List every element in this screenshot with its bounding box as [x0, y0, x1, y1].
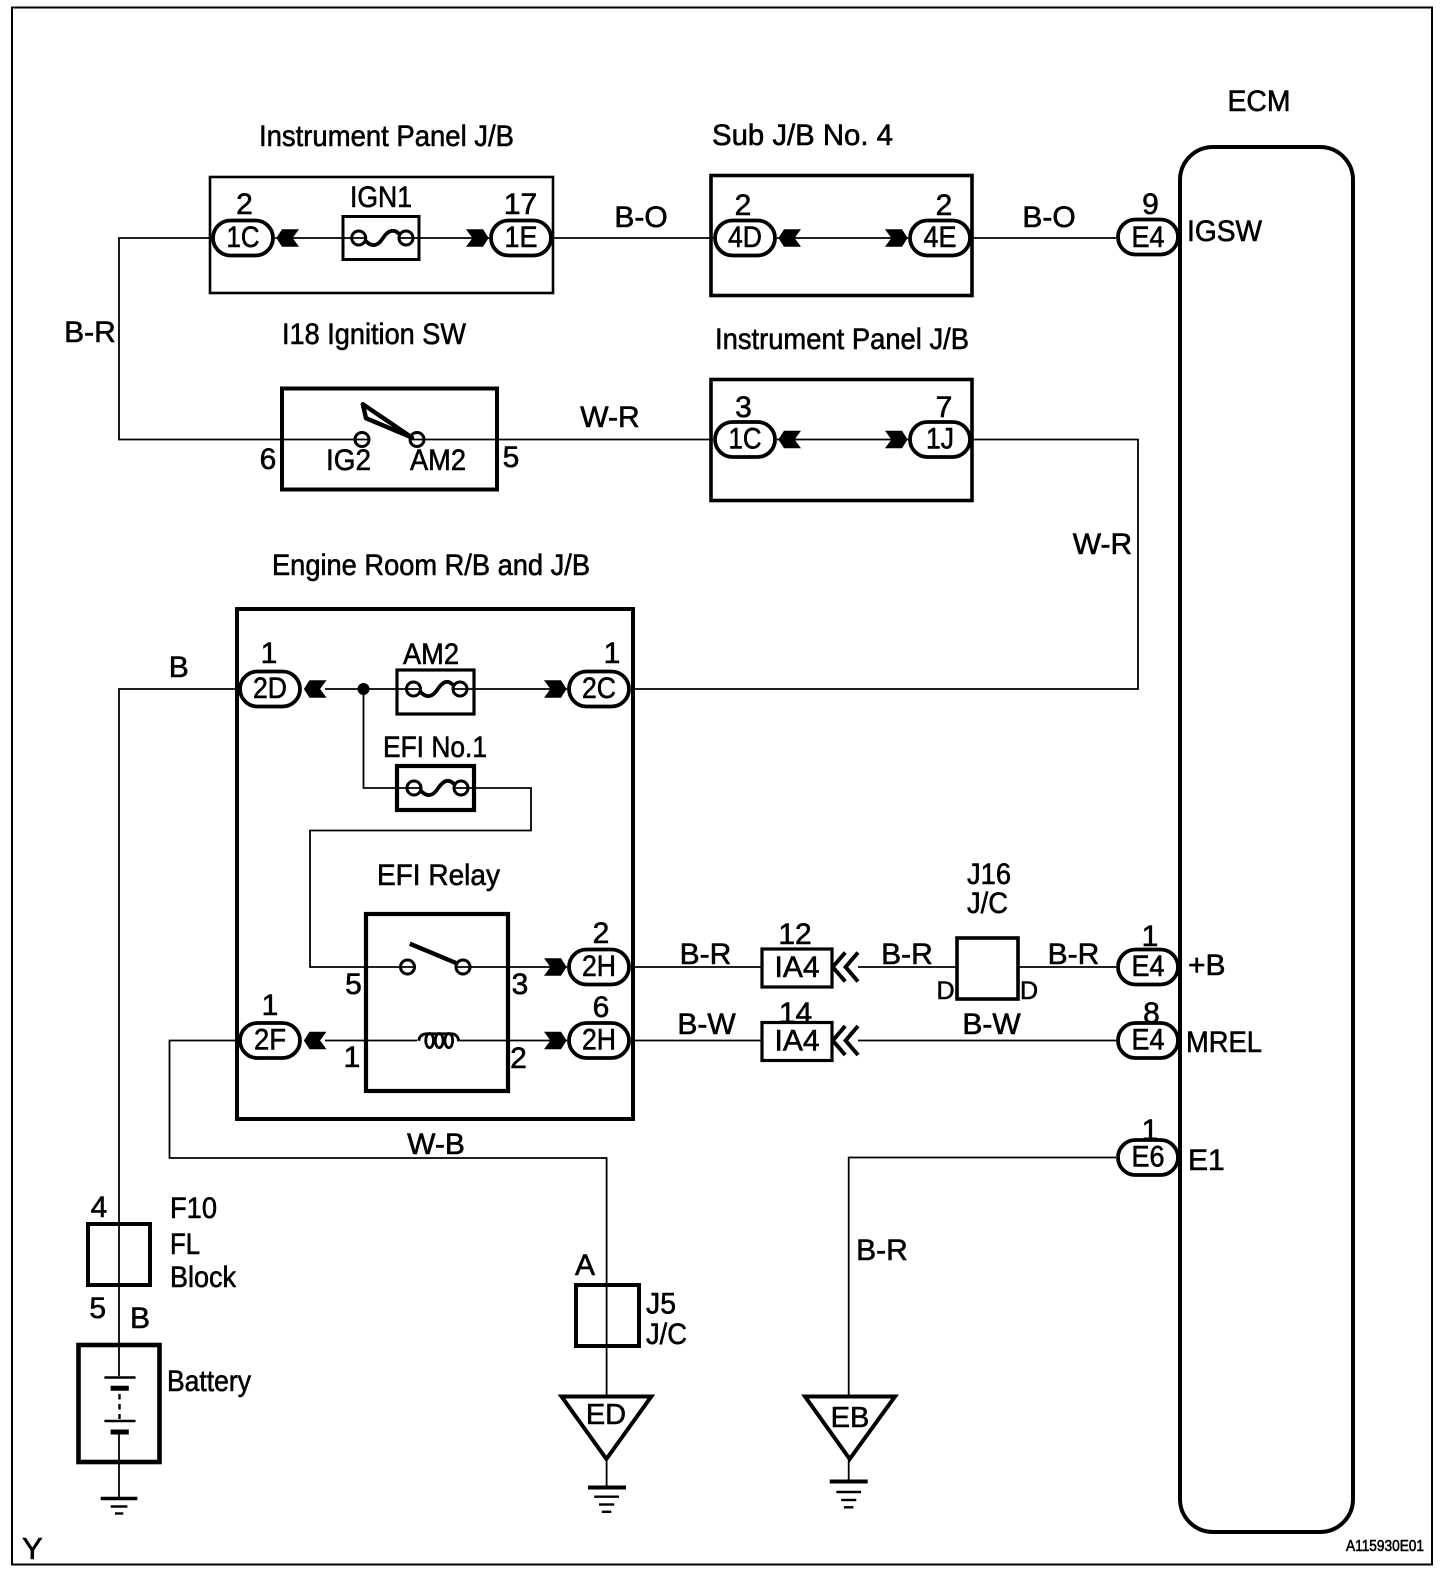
arrow at 4D [778, 229, 801, 246]
wire 2D to fuse AM2 [325, 688, 421, 690]
svg-text:EFI Relay: EFI Relay [377, 859, 500, 892]
svg-text:9: 9 [1142, 188, 1159, 221]
svg-text:Instrument Panel J/B: Instrument Panel J/B [259, 120, 514, 153]
fuse EFI No.1 [383, 731, 487, 810]
junction connector J16 J/C [936, 858, 1038, 1005]
svg-text:Block: Block [170, 1261, 237, 1294]
svg-text:2: 2 [236, 188, 253, 221]
wire B-R from 1C to ignition switch pin 6 [119, 238, 282, 440]
wire relay pin 5 to contact [366, 966, 415, 968]
svg-text:AM2: AM2 [403, 638, 459, 671]
svg-text:IGN1: IGN1 [350, 181, 412, 214]
box Sub J/B No. 4 [711, 119, 972, 296]
box Instrument Panel J/B [210, 120, 553, 293]
svg-text:1J: 1J [926, 423, 954, 456]
svg-text:8: 8 [1143, 997, 1160, 1030]
connector 2F pin 1 [240, 989, 300, 1058]
svg-text:B-W: B-W [962, 1008, 1021, 1041]
WIRES-MIDDLE [119, 689, 1116, 1397]
svg-text:F10: F10 [170, 1192, 217, 1225]
ground point ED [562, 1397, 652, 1460]
svg-text:IG2: IG2 [326, 444, 371, 477]
connector 2C pin 1 [569, 637, 629, 707]
svg-text:17: 17 [504, 188, 537, 221]
svg-text:B-O: B-O [614, 201, 667, 234]
svg-text:W-B: W-B [407, 1128, 465, 1161]
junction node [358, 683, 370, 695]
battery BAT1 [79, 1345, 252, 1462]
wire AM2 contact to switch box right [410, 439, 497, 441]
arrow at 2D [304, 680, 327, 697]
connector 4D pin 2 [715, 189, 775, 256]
connector 2H pin 2 [569, 917, 629, 985]
svg-text:1: 1 [604, 637, 621, 670]
svg-text:A115930E01: A115930E01 [1346, 1538, 1424, 1555]
wire B-W 2H to IA4 pin 14 [631, 1040, 762, 1042]
svg-text:EFI No.1: EFI No.1 [383, 731, 487, 764]
wire fuse IGN1 to 1E [399, 237, 489, 239]
svg-text:E4: E4 [1132, 221, 1165, 254]
svg-text:1C: 1C [729, 423, 762, 456]
arrow at 2F [304, 1032, 327, 1049]
svg-text:14: 14 [779, 997, 812, 1030]
wire 2F arrow to relay pin 1 [325, 1040, 366, 1042]
svg-text:2F: 2F [254, 1024, 286, 1057]
svg-text:6: 6 [260, 443, 277, 476]
svg-text:2: 2 [735, 189, 752, 222]
wire B-R E6 to EB ground [849, 1158, 1116, 1397]
svg-text:5: 5 [89, 1292, 106, 1325]
wire coil to relay pin 2 [457, 1040, 508, 1042]
connector E4 pin 1 +B [1118, 920, 1226, 985]
svg-text:E4: E4 [1132, 950, 1165, 983]
svg-text:6: 6 [593, 991, 610, 1024]
svg-text:IGSW: IGSW [1187, 215, 1263, 248]
connector 1C pin 2 [213, 188, 273, 256]
wire fuse EFI No.1 to relay pin 5 [310, 788, 531, 967]
svg-text:5: 5 [345, 968, 362, 1001]
svg-text:2H: 2H [582, 950, 616, 983]
box I18 Ignition SW [282, 318, 497, 490]
svg-text:1: 1 [262, 989, 279, 1022]
connector E6 pin 1 E1 [1118, 1114, 1225, 1177]
wire J5 to ED ground [606, 1346, 608, 1397]
svg-text:A: A [575, 1249, 595, 1282]
wire W-R 1J down to 2C [633, 440, 1138, 690]
svg-text:1: 1 [261, 637, 278, 670]
svg-text:B-R: B-R [856, 1234, 908, 1267]
arrow at 2C [544, 680, 567, 697]
svg-text:E1: E1 [1188, 1144, 1225, 1177]
ground point EB [805, 1397, 895, 1460]
connector E4 pin 9 IGSW [1118, 188, 1263, 255]
ECM U1 [1180, 85, 1353, 1532]
connector 1C pin 3 [715, 391, 775, 457]
svg-text:MREL: MREL [1186, 1026, 1262, 1059]
svg-text:FL: FL [170, 1228, 200, 1261]
relay coil L1 [419, 1034, 459, 1048]
arrow at 1J [885, 431, 908, 448]
chevrons IA4 14 [833, 1026, 858, 1055]
svg-text:2D: 2D [253, 672, 287, 705]
wire fuse AM2 to 2C [453, 688, 567, 690]
wire relay contact to pin 3 [456, 966, 508, 968]
svg-text:EB: EB [831, 1402, 870, 1434]
fuse AM2 [397, 638, 474, 714]
svg-text:W-R: W-R [1073, 528, 1132, 561]
arrow at 2H pin6 [544, 1032, 567, 1049]
svg-text:2: 2 [510, 1042, 527, 1075]
svg-text:4E: 4E [924, 221, 957, 254]
switch contact IG2 [355, 433, 369, 447]
wire B-R IA4 to J16 [858, 966, 957, 968]
fusible link F10 FL Block [88, 1191, 237, 1325]
connector IA4 pin 14 [762, 997, 832, 1061]
arrow at 1E [466, 229, 489, 246]
svg-text:Y: Y [22, 1531, 43, 1566]
relay switch contact left [401, 960, 415, 974]
svg-text:12: 12 [778, 918, 811, 951]
box Instrument Panel J/B 2 [711, 323, 972, 501]
ground at ED [588, 1459, 626, 1512]
fuse IGN1 [343, 181, 419, 260]
svg-text:J/C: J/C [646, 1318, 687, 1351]
wire switch box to IG2 contact [282, 439, 369, 441]
wire W-R switch pin 5 to 1C [497, 439, 713, 441]
svg-text:AM2: AM2 [410, 444, 466, 477]
ground at EB [830, 1459, 868, 1507]
wire node A1 to fuse EFI No.1 [364, 689, 422, 788]
wire relay pin 1 to coil [366, 1040, 417, 1042]
svg-text:B-R: B-R [1048, 938, 1100, 971]
wire W-B 2F down [170, 1041, 607, 1286]
wire B battery feed vertical [119, 689, 238, 1345]
wire 4D to 4E [777, 237, 908, 239]
relay switch lever [410, 944, 456, 963]
wire B-R 2H to IA4 pin 12 [631, 966, 762, 968]
wire B-O 4E to ECM E4 pin 9 [972, 237, 1116, 239]
wire B-W IA4 to ECM E4 pin 8 [858, 1040, 1116, 1042]
svg-text:J5: J5 [646, 1288, 676, 1321]
svg-text:Engine Room R/B and J/B: Engine Room R/B and J/B [272, 549, 590, 582]
svg-text:B-W: B-W [677, 1008, 736, 1041]
switch contact AM2 [410, 433, 424, 447]
svg-text:B: B [130, 1302, 150, 1335]
svg-text:5: 5 [503, 441, 520, 474]
svg-text:IA4: IA4 [774, 951, 819, 984]
connector 4E pin 2 [910, 189, 970, 256]
arrow at 2H pin2 [544, 958, 567, 975]
svg-text:ED: ED [586, 1399, 626, 1431]
connector 1E pin 17 [491, 188, 551, 256]
junction connector J5 J/C [576, 1285, 687, 1351]
svg-text:J/C: J/C [967, 887, 1008, 920]
svg-text:3: 3 [512, 968, 529, 1001]
svg-text:B-O: B-O [1022, 201, 1075, 234]
wire B-R J16 to ECM E4 pin 1 [1018, 966, 1116, 968]
svg-text:1C: 1C [227, 221, 260, 254]
connector 2H pin 6 [569, 991, 629, 1058]
svg-text:B-R: B-R [881, 938, 933, 971]
wire relay pin 2 to 2H [508, 1040, 567, 1042]
svg-text:4D: 4D [728, 221, 762, 254]
svg-text:B: B [169, 651, 189, 684]
connector 2D pin 1 [240, 637, 300, 707]
ground at battery [101, 1462, 138, 1514]
wire relay pin 3 to 2H [508, 966, 567, 968]
svg-text:1: 1 [1142, 920, 1159, 953]
wire B-O 1E to 4D [553, 237, 713, 239]
svg-text:4: 4 [91, 1191, 108, 1224]
svg-text:+B: +B [1188, 949, 1226, 982]
connector 1J pin 7 [910, 391, 970, 457]
svg-text:2: 2 [593, 917, 610, 950]
wire 1C to fuse IGN1 [275, 237, 366, 239]
svg-text:2: 2 [936, 189, 953, 222]
svg-text:D: D [936, 977, 954, 1005]
relay switch contact right [456, 960, 470, 974]
relay EFI Relay [366, 859, 508, 1091]
arrow at 1C [276, 229, 299, 246]
wire 1C to 1J [777, 439, 908, 441]
svg-text:7: 7 [936, 391, 953, 424]
svg-text:W-R: W-R [580, 401, 639, 434]
svg-text:Sub J/B No. 4: Sub J/B No. 4 [712, 119, 893, 152]
svg-text:2C: 2C [582, 672, 616, 705]
connector E4 pin 8 MREL [1118, 997, 1262, 1059]
svg-text:1E: 1E [505, 221, 538, 254]
svg-text:B-R: B-R [64, 316, 116, 349]
box Engine Room R/B and J/B [237, 549, 633, 1119]
connector IA4 pin 12 [762, 918, 832, 987]
svg-text:B-R: B-R [680, 938, 732, 971]
svg-text:1: 1 [1142, 1114, 1159, 1147]
svg-text:Instrument Panel J/B: Instrument Panel J/B [715, 323, 969, 356]
svg-text:D: D [1020, 977, 1038, 1005]
arrow at 4E [885, 229, 908, 246]
arrow at 1C 3 [778, 431, 801, 448]
WIRES-TOPLEFT [119, 238, 1138, 689]
chevrons IA4 12 [833, 953, 858, 982]
svg-text:2H: 2H [582, 1024, 616, 1057]
svg-text:Battery: Battery [167, 1365, 251, 1398]
svg-text:I18 Ignition SW: I18 Ignition SW [282, 318, 467, 351]
svg-text:1: 1 [344, 1041, 361, 1074]
svg-text:ECM: ECM [1228, 85, 1291, 118]
svg-text:3: 3 [735, 391, 752, 424]
switch lever [363, 404, 412, 437]
